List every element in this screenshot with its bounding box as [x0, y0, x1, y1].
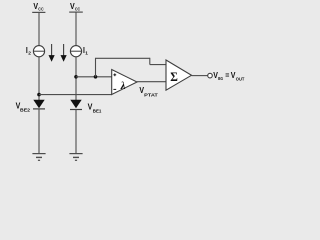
svg-text:BE1: BE1	[93, 108, 102, 114]
svg-text:PTAT: PTAT	[144, 92, 158, 98]
current direction arrow for I2	[49, 44, 55, 62]
label VPTAT	[139, 85, 157, 98]
power VCC right rail bar	[69, 11, 83, 13]
wire D1 to ground	[75, 110, 77, 154]
current direction arrow for I1	[61, 44, 67, 62]
ground left	[32, 154, 45, 161]
op-amp gain block lambda U1	[112, 70, 137, 95]
diode D2 (VBE2)	[33, 100, 45, 109]
wire amplifier output VPTAT to summer	[137, 81, 166, 83]
wire VCC right to current source I1	[75, 12, 77, 46]
wire I1 to diode D1	[75, 57, 77, 100]
label VBE1	[88, 102, 102, 115]
wire summer output to terminal	[192, 75, 208, 77]
wire VCC left to current source I2	[38, 12, 40, 46]
output terminal circle	[208, 73, 213, 78]
diode D1 (VBE1)	[70, 100, 82, 110]
power VCC right label	[70, 1, 81, 13]
svg-text:CC: CC	[38, 7, 44, 13]
label VBG = VOUT	[213, 70, 244, 82]
svg-text:Σ: Σ	[170, 70, 178, 84]
power VCC left label	[33, 1, 44, 13]
ground right	[69, 154, 82, 161]
label I1	[83, 45, 88, 56]
svg-text:BE2: BE2	[20, 108, 30, 114]
wire feedback riser up	[95, 58, 97, 77]
node at I2/D2 (junction dot)	[37, 93, 41, 97]
svg-text:2: 2	[28, 50, 31, 56]
current source I1	[70, 46, 81, 57]
summing block sigma U2	[166, 60, 192, 90]
wire node I2 to amplifier minus input	[39, 94, 112, 96]
svg-text:=: =	[225, 70, 229, 80]
current source I2	[33, 46, 44, 57]
label I2	[26, 45, 31, 56]
label VBE2	[16, 100, 31, 113]
svg-text:λ: λ	[120, 81, 126, 92]
wire I2 to diode D2	[38, 57, 40, 100]
wire D2 to ground	[38, 109, 40, 153]
wire feedback step down	[149, 58, 151, 65]
svg-text:BG: BG	[218, 76, 223, 82]
node tee to feedback riser (junction dot)	[94, 75, 98, 79]
node at I1/D1 (junction dot)	[74, 75, 78, 79]
power VCC left rail bar	[32, 11, 45, 13]
svg-text:1: 1	[85, 50, 88, 56]
svg-text:OUT: OUT	[236, 76, 245, 82]
wire node I1 to amplifier plus input	[76, 76, 112, 78]
wire feedback horizontal to summer	[95, 57, 150, 59]
wire feedback into summer top input	[150, 64, 166, 66]
